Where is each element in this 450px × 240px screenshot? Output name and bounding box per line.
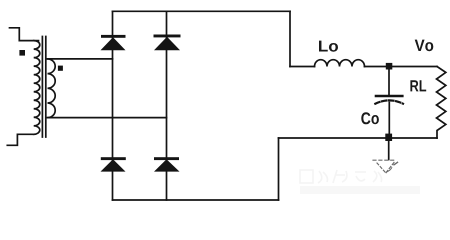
capacitor Co top plate — [376, 95, 402, 98]
transformer T1 core — [42, 37, 45, 138]
ground lead — [388, 141, 390, 160]
node: output junction (top) — [386, 63, 393, 70]
wire: bottom riser — [278, 138, 280, 200]
resistor RL — [437, 67, 446, 139]
wire: bridge top rail — [113, 10, 291, 12]
transformer T1 polarity dot (primary) — [19, 50, 25, 56]
wire: secondary top to bridge left rail — [48, 58, 113, 60]
label Co — [361, 112, 379, 124]
label Vo — [415, 40, 434, 52]
capacitor Co bottom plate (curved) — [375, 100, 403, 103]
capacitor Co bottom lead — [388, 103, 390, 134]
node: output junction (bottom) — [385, 134, 392, 141]
transformer T1 primary bottom lead — [7, 134, 33, 145]
diode D4 (bottom-right) — [154, 157, 180, 171]
faint watermark — [300, 170, 420, 190]
transformer T1 primary top lead — [10, 28, 39, 41]
inductor Lo — [315, 60, 365, 67]
transformer T1 primary winding — [34, 41, 40, 135]
diode D2 (top-right) — [154, 35, 181, 51]
wire: bridge bottom rail — [113, 199, 279, 201]
wire: lower output rail — [279, 137, 438, 139]
label RL — [410, 80, 426, 91]
wire: top output drop — [289, 11, 291, 66]
wire: into inductor — [290, 66, 315, 68]
transformer T1 polarity dot (secondary) — [58, 66, 63, 71]
transformer T1 secondary winding — [48, 59, 56, 118]
label Lo — [319, 41, 338, 52]
wire: inductor to output node — [365, 66, 438, 68]
diode D1 (top-left) — [101, 35, 126, 50]
wire: bridge left vertical rail — [112, 11, 114, 200]
diode D3 (bottom-left) — [101, 157, 126, 171]
ground symbol (sketched dashed) — [373, 160, 398, 173]
capacitor Co top lead — [388, 70, 390, 95]
wire: bridge right vertical rail — [166, 11, 168, 200]
wire: secondary bottom to bridge right rail — [48, 117, 167, 119]
